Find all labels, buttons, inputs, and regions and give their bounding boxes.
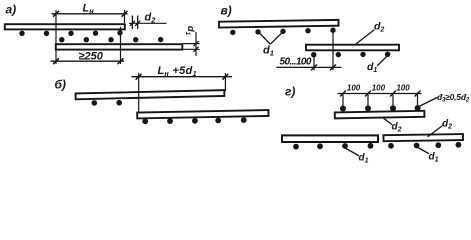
extension line right lower (part a): [120, 28, 122, 64]
svg-text:г): г): [285, 85, 295, 99]
extension line left (part a): [55, 11, 57, 64]
dimension L_n+5d1 line (part b): [132, 76, 232, 78]
tick: [223, 74, 228, 79]
d2 leader (part v): [356, 30, 374, 44]
mesh 1 longitudinal bar (part a top): [5, 24, 125, 29]
d1 leader (part v lower): [378, 56, 387, 65]
mesh 2 transverse bar dots (part v): [311, 52, 390, 58]
d2 gauge line: [130, 22, 167, 24]
svg-text:50...100: 50...100: [280, 57, 312, 68]
svg-text:Lн +5d1: Lн +5d1: [158, 65, 197, 78]
svg-text:100: 100: [372, 84, 386, 93]
mesh 2 longitudinal bar (part b bottom): [137, 110, 268, 118]
d2 gauge ticks (part a): [131, 16, 133, 29]
mesh 1 longitudinal bar (part v top): [219, 20, 339, 28]
leader to diameter note (part g): [419, 98, 437, 107]
d2 leader (part g bottom right): [428, 126, 442, 137]
d1 leader (part g bottom left): [346, 149, 359, 156]
svg-text:100: 100: [347, 84, 361, 93]
tick: [136, 21, 140, 25]
tick: [136, 74, 141, 79]
mesh 4 transverse bar dots: [293, 143, 373, 150]
extension lines (part g dim): [342, 95, 344, 106]
d1 gauge ticks (part a right): [183, 43, 199, 45]
svg-text:б): б): [55, 78, 66, 92]
extension line right upper (part a): [124, 11, 126, 23]
mesh 1 transverse bar dots (part b): [92, 100, 122, 106]
mesh 2 transverse bar dots (part b): [142, 117, 246, 124]
tick: [415, 91, 420, 96]
svg-text:đ3≥0,5đ2: đ3≥0,5đ2: [437, 92, 470, 104]
tick: [366, 91, 371, 96]
mesh 3 longitudinal bar (part g middle): [335, 111, 425, 119]
tick: [331, 65, 336, 70]
mesh 1 transverse bar dots (part a): [19, 30, 122, 36]
extension line right (part v dim): [332, 33, 334, 70]
tick: [194, 47, 198, 51]
d2 leader (part g middle): [383, 117, 392, 124]
svg-text:100: 100: [396, 84, 410, 93]
mesh 1 longitudinal bar (part b top): [76, 90, 225, 99]
extension line left (part v dim): [313, 58, 315, 70]
tick: [54, 59, 59, 64]
tick: [130, 21, 134, 25]
extension line left (part b): [138, 74, 140, 113]
mesh 5 longitudinal bar (part g bottom right): [383, 134, 463, 141]
tick: [341, 91, 346, 96]
dimension L_n line (part a): [52, 13, 127, 15]
tick: [391, 91, 396, 96]
mesh 1 transverse bar dots (part v): [230, 28, 336, 36]
mesh 5 transverse bar dots: [388, 142, 461, 149]
dimension 100x3 line (part g): [338, 93, 421, 95]
mesh 4 longitudinal bar (part g bottom left): [282, 135, 378, 142]
tick: [122, 11, 127, 16]
tick: [194, 41, 198, 45]
dimension >=250 line (part a): [51, 60, 124, 62]
d1 leader (part g bottom right): [418, 148, 429, 154]
tick: [118, 59, 123, 64]
mesh 2 longitudinal bar (part a bottom): [56, 44, 183, 49]
dimension 50...100 line (part v): [277, 66, 341, 68]
mesh 2 transverse bar dots (part a): [59, 37, 163, 43]
d1 leader V lines (part v): [259, 33, 270, 44]
svg-text:в): в): [221, 4, 232, 18]
tick: [54, 11, 59, 16]
d1 gauge vertical line: [195, 33, 197, 56]
tick: [312, 65, 317, 70]
svg-text:а): а): [6, 3, 17, 17]
extension line right (part b): [224, 74, 226, 91]
svg-text:≥250: ≥250: [79, 50, 104, 62]
mesh 3 transverse bar dots (part g top): [340, 105, 421, 111]
mesh 2 longitudinal bar (part v bottom): [306, 45, 399, 51]
